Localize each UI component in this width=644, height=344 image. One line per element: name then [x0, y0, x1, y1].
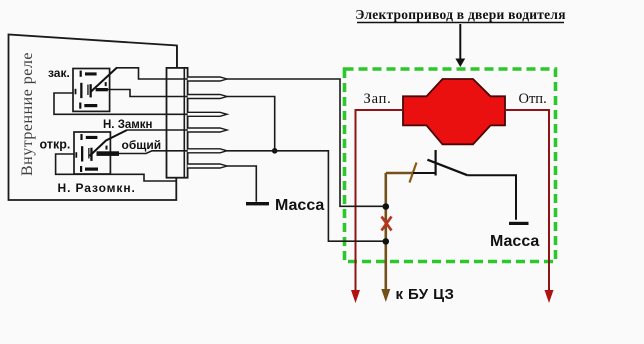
K2 left pin mark: [75, 152, 77, 158]
K1 wire common to pin 2: [108, 90, 188, 97]
K1 bottom terminal bar: [84, 104, 97, 107]
enclosure box Внутренние реле: [9, 35, 177, 201]
K1 armature: [91, 68, 118, 93]
K2 center contact bar: [90, 148, 92, 161]
ground symbol 2: [509, 222, 529, 225]
wire switch to ground 2: [467, 175, 516, 220]
K2 left contact bar: [81, 146, 83, 161]
relay K1 (зак.) box: [73, 69, 110, 112]
svg-text:Отп.: Отп.: [519, 91, 547, 107]
connector X1 inner wall: [183, 68, 185, 178]
red arrow right: [545, 290, 554, 303]
red wire left (Зап. feed): [356, 110, 404, 291]
connector pin 3: [188, 112, 227, 116]
wire pin 5 bus to junction B: [227, 151, 386, 241]
wire K2 common to pin 5: [119, 151, 188, 154]
K1 center contact bar: [90, 84, 92, 97]
brown contact tick: [410, 163, 417, 183]
svg-text:откр.: откр.: [40, 138, 71, 152]
arrow from title to actuator box: [459, 24, 461, 60]
K1 top terminal bar: [85, 72, 97, 75]
connector pin 5: [188, 149, 227, 153]
svg-text:зак.: зак.: [48, 66, 70, 80]
K1 top terminal tick: [80, 71, 82, 77]
green dashed enclosure (электропривод boundary): [345, 69, 556, 262]
K1 wire left loop to pin 3: [54, 93, 188, 114]
title underline: [357, 22, 564, 24]
wire pin 2 drop to pin 5 bus: [227, 97, 275, 151]
K1 center thin mark: [87, 85, 88, 96]
wire Н.Замкн line to pin 4: [127, 129, 188, 131]
brown arrow к БУ ЦЗ: [381, 289, 390, 302]
wire pin 1 to junction A: [227, 79, 386, 206]
relay K2 (откр.) box: [74, 132, 110, 174]
connector pin 6: [188, 164, 227, 168]
wire pin 6 to ground: [227, 166, 256, 202]
brown wire horizontal: [386, 172, 413, 174]
junction dot on pin5 bus: [272, 148, 278, 154]
K2 bottom terminal bar: [85, 168, 98, 171]
junction dot A: [383, 203, 390, 210]
black wire tick to switch: [413, 172, 435, 174]
K2 armature extended to Н.Замкн line: [90, 130, 128, 156]
brown wire vertical to к БУ ЦЗ: [384, 173, 387, 290]
connector pin 1: [188, 77, 227, 81]
switch arm: [427, 160, 467, 176]
connector pin 4: [188, 128, 227, 132]
K2 wire left loop to case: [56, 154, 177, 181]
svg-text:Внутренние реле: Внутренние реле: [19, 52, 36, 176]
svg-text:Масса: Масса: [275, 197, 324, 214]
junction dot B: [383, 238, 390, 245]
red wire right (Отп. feed): [505, 110, 549, 291]
K1 bottom terminal tick: [79, 103, 81, 109]
svg-text:Н. Разомкн.: Н. Разомкн.: [58, 181, 136, 195]
actuator M1 (red motor shape): [403, 79, 505, 144]
K2 pin mark 2: [106, 146, 108, 150]
K1 left contact bar: [80, 83, 82, 98]
K2 top terminal tick: [80, 134, 82, 140]
connector pin 2: [188, 95, 227, 99]
svg-text:Зап.: Зап.: [364, 91, 392, 107]
svg-text:общий: общий: [122, 138, 162, 152]
ground symbol 1: [246, 202, 269, 205]
svg-text:к БУ ЦЗ: к БУ ЦЗ: [396, 286, 455, 303]
K2 common bar right: [97, 151, 120, 156]
switch fixed contact stub: [435, 150, 437, 176]
svg-text:Масса: Масса: [490, 233, 539, 250]
K1 pin mark 2: [105, 82, 107, 86]
K1 left pin mark: [75, 89, 77, 95]
red arrow left: [351, 290, 360, 303]
svg-text:Электропривод в двери водителя: Электропривод в двери водителя: [355, 7, 566, 22]
K2 top terminal bar: [86, 136, 98, 139]
cut mark X: [382, 217, 392, 231]
connector X1 body: [167, 68, 188, 178]
K1 wire armature to pin 1: [117, 68, 188, 79]
wire from enclosure top corner to connector top: [176, 46, 178, 68]
K2 bottom terminal tick: [80, 166, 82, 172]
K1 common bar right: [96, 88, 108, 91]
K2 center thin mark: [88, 148, 89, 159]
